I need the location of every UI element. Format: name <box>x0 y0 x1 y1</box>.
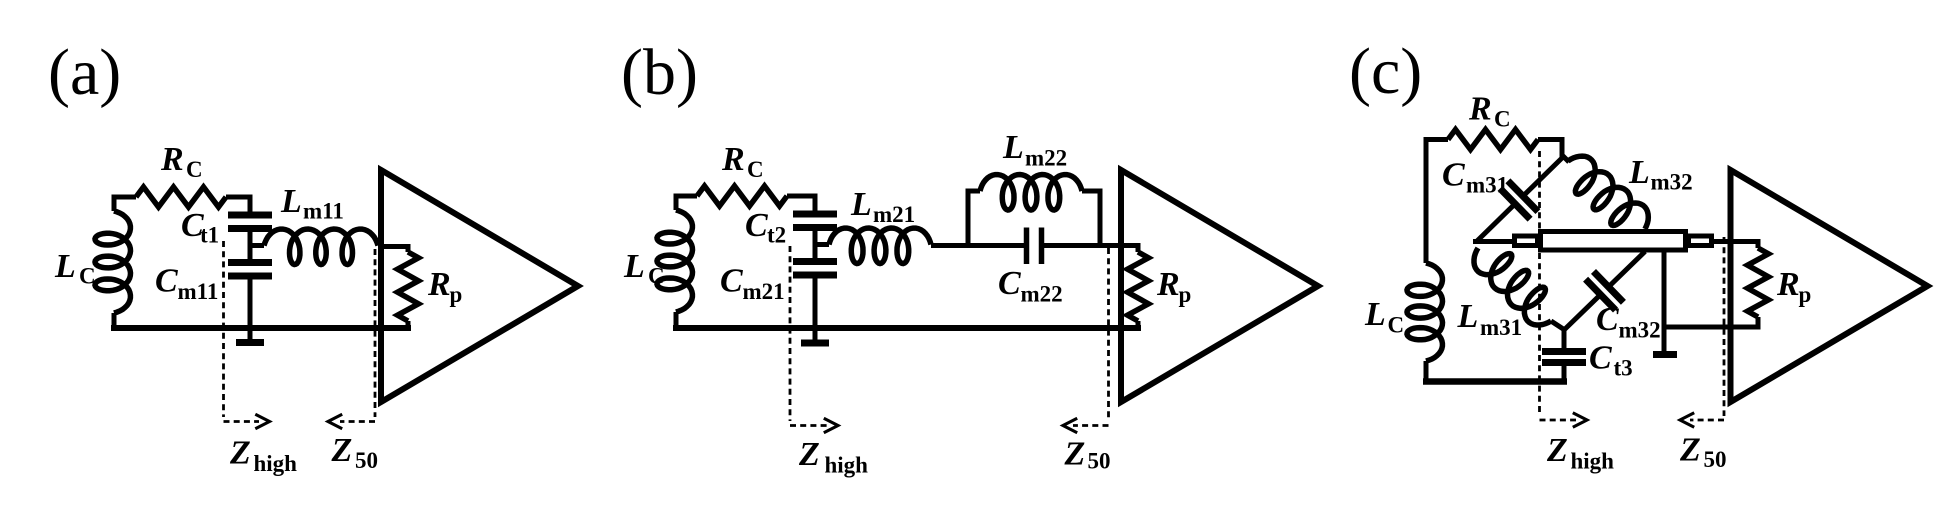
inductor LC (a) <box>95 195 131 332</box>
svg-text:t3: t3 <box>1614 356 1633 381</box>
arrow Zhigh (c) <box>1573 413 1587 427</box>
svg-text:p: p <box>450 282 463 307</box>
svg-text:Z: Z <box>1546 432 1568 469</box>
svg-text:R: R <box>427 266 451 303</box>
label Ct1 <box>181 207 219 248</box>
svg-text:t2: t2 <box>767 223 786 248</box>
svg-text:C: C <box>720 263 743 300</box>
svg-text:C: C <box>1596 301 1619 338</box>
label Cm11 <box>155 263 218 305</box>
svg-text:m31: m31 <box>1480 315 1522 340</box>
label RC (c) <box>1468 91 1511 132</box>
inductor LC (b) <box>657 194 693 332</box>
label Rp (c) <box>1776 266 1811 307</box>
svg-text:t1: t1 <box>200 223 219 248</box>
svg-text:m11: m11 <box>178 279 219 304</box>
label Cm22 <box>998 265 1063 307</box>
wire tank to Rp (b) <box>1044 243 1138 248</box>
svg-text:L: L <box>623 248 645 285</box>
svg-text:C: C <box>79 264 96 289</box>
transmission line left pad (c) <box>1515 236 1538 246</box>
arrow Z50 (c) <box>1680 413 1694 427</box>
label Cm32 <box>1596 301 1661 343</box>
resistor Rp (c) <box>1748 239 1769 330</box>
label Zhigh (b) <box>798 436 868 478</box>
node Z50 boundary dashed (a) <box>340 249 375 422</box>
svg-text:Z: Z <box>331 432 353 469</box>
svg-text:L: L <box>850 186 872 223</box>
panel label (c) <box>1349 35 1422 108</box>
arrow Z50 (a) <box>328 414 342 428</box>
label RC (b) <box>721 141 764 182</box>
svg-text:R: R <box>160 141 184 178</box>
wire bottom rail (b) <box>673 325 1141 331</box>
label Z50 (b) <box>1064 436 1111 474</box>
label Lm31 <box>1457 298 1523 340</box>
wire TL stub to ground (c) <box>1662 252 1667 351</box>
label Cm21 <box>720 263 785 305</box>
svg-text:C: C <box>155 263 178 300</box>
wire Lm21 to tank (b) <box>931 243 1026 248</box>
wire top rail (b) <box>676 194 815 199</box>
label Lm22 <box>1002 129 1067 171</box>
wire RC corner down (c) <box>1560 137 1565 158</box>
svg-text:high: high <box>825 453 869 478</box>
svg-text:m22: m22 <box>1025 146 1067 171</box>
wire TL to Rp (c) <box>1714 239 1758 244</box>
node Zhigh boundary dashed (a) <box>224 241 260 422</box>
svg-text:L: L <box>280 183 302 220</box>
wire tank loop (b) <box>968 191 1100 246</box>
ground (a) <box>236 339 264 346</box>
svg-text:p: p <box>1799 282 1812 307</box>
capacitor Cm11 <box>228 246 272 340</box>
svg-text:high: high <box>254 451 298 476</box>
resistor RC (b) <box>697 186 787 206</box>
transmission line body (c) <box>1541 232 1686 251</box>
label LC (a) <box>54 248 96 289</box>
svg-text:50: 50 <box>355 448 378 473</box>
panel label (a) <box>48 36 121 109</box>
label LC (c) <box>1364 296 1404 338</box>
svg-text:C: C <box>1388 313 1405 338</box>
svg-text:L: L <box>1364 296 1386 333</box>
svg-text:Z: Z <box>798 436 820 473</box>
label RC (a) <box>160 141 203 182</box>
label Ct3 <box>1589 340 1633 381</box>
capacitor Cm22 <box>1027 228 1042 265</box>
svg-text:high: high <box>1571 449 1615 474</box>
svg-text:m11: m11 <box>303 199 344 224</box>
ground (b) <box>801 340 829 347</box>
node Z50 boundary dashed (c) <box>1690 237 1724 420</box>
wire node to TL (c) <box>1473 239 1514 244</box>
wire top rail (a) <box>114 195 250 200</box>
wire top rail (c) <box>1426 137 1562 142</box>
svg-text:C: C <box>747 157 764 182</box>
svg-text:C: C <box>745 207 768 244</box>
label Cm31 <box>1442 157 1508 198</box>
inductor Lm31 <box>1474 248 1564 330</box>
panel label (b) <box>621 36 698 109</box>
svg-text:L: L <box>54 248 76 285</box>
svg-text:R: R <box>1156 266 1180 303</box>
inductor LC (c) <box>1407 263 1443 384</box>
svg-text:C: C <box>648 264 665 289</box>
label Ct2 <box>745 207 786 248</box>
node Zhigh boundary dashed (b) <box>790 246 827 426</box>
svg-text:(a): (a) <box>48 36 121 109</box>
arrow Z50 (b) <box>1063 418 1077 432</box>
svg-text:m31: m31 <box>1466 173 1508 198</box>
svg-text:Z: Z <box>1064 436 1086 473</box>
svg-text:m22: m22 <box>1021 282 1063 307</box>
svg-text:C: C <box>1589 340 1612 377</box>
label Lm21 <box>850 186 915 227</box>
wire bottom output rail (c) <box>1664 325 1761 330</box>
svg-text:C: C <box>1494 107 1511 132</box>
label Lm32 <box>1628 154 1693 195</box>
svg-text:50: 50 <box>1704 447 1727 472</box>
inductor Lm22 <box>980 175 1082 211</box>
node Z50 boundary dashed (b) <box>1073 248 1109 426</box>
arrow Zhigh (a) <box>255 414 269 428</box>
wire left rail (c) <box>1424 137 1429 263</box>
inductor Lm21 <box>829 228 931 264</box>
op-amp triangle (c) <box>1731 170 1928 402</box>
label Rp (b) <box>1156 266 1191 307</box>
resistor Rp (a) <box>398 244 419 329</box>
svg-text:m32: m32 <box>1651 170 1693 195</box>
svg-text:(b): (b) <box>621 36 698 109</box>
wire node to Rp (a) <box>378 244 408 249</box>
inductor Lm32 <box>1562 155 1648 233</box>
label Rp (a) <box>427 266 462 307</box>
label Z50 (a) <box>331 432 379 473</box>
resistor RC (a) <box>136 187 226 207</box>
resistor Rp (b) <box>1128 243 1149 329</box>
capacitor Cm21 <box>793 245 837 340</box>
capacitor Ct1 <box>228 195 272 246</box>
svg-text:L: L <box>1457 298 1479 335</box>
resistor RC (c) <box>1448 130 1538 150</box>
wire junction Ct1-Lm11 <box>250 243 264 248</box>
svg-text:R: R <box>721 141 745 178</box>
wire junction Ct2-Lm21 <box>815 242 829 247</box>
inductor Lm11 <box>264 229 378 265</box>
capacitor Ct2 <box>793 194 837 245</box>
svg-text:Z: Z <box>229 435 251 472</box>
label LC (b) <box>623 248 665 289</box>
capacitor Cm32 <box>1564 252 1645 331</box>
svg-text:R: R <box>1468 91 1492 128</box>
op-amp triangle (b) <box>1121 170 1318 402</box>
node Zhigh boundary dashed (c) <box>1540 151 1577 420</box>
transmission line right pad (c) <box>1689 236 1712 246</box>
label Zhigh (c) <box>1546 432 1614 474</box>
arrow Zhigh (b) <box>824 418 838 432</box>
svg-text:C: C <box>186 157 203 182</box>
svg-text:L: L <box>1628 154 1650 191</box>
svg-text:p: p <box>1179 282 1192 307</box>
op-amp triangle (a) <box>381 170 578 402</box>
svg-text:L: L <box>1002 129 1024 166</box>
wire bottom rail (a) <box>111 325 411 331</box>
label Z50 (c) <box>1679 432 1727 473</box>
capacitor Ct3 <box>1542 329 1586 384</box>
label Zhigh (a) <box>229 435 297 477</box>
svg-text:m21: m21 <box>873 202 915 227</box>
label Lm11 <box>280 183 344 224</box>
ground (c) <box>1653 351 1677 358</box>
svg-text:R: R <box>1776 266 1800 303</box>
svg-text:C: C <box>998 265 1021 302</box>
svg-text:m21: m21 <box>743 279 785 304</box>
svg-text:50: 50 <box>1088 449 1111 474</box>
svg-text:m32: m32 <box>1619 318 1661 343</box>
capacitor Cm31 <box>1476 158 1562 242</box>
svg-text:(c): (c) <box>1349 35 1422 108</box>
wire bottom rail (c) <box>1423 378 1567 385</box>
svg-text:Z: Z <box>1679 432 1701 469</box>
svg-text:C: C <box>1442 157 1465 194</box>
